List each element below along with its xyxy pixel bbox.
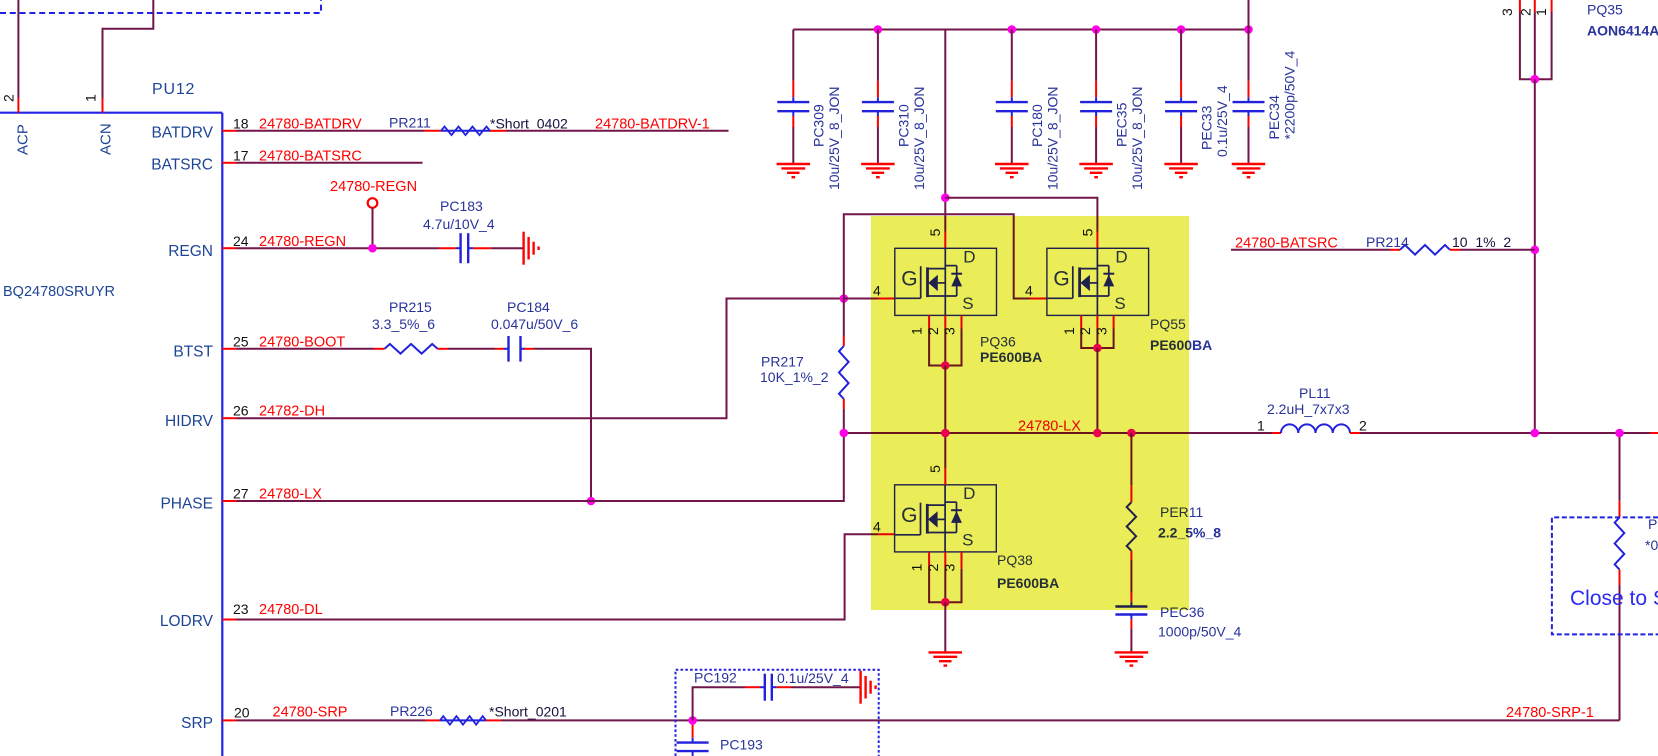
wire PC309 to ground <box>792 116 794 164</box>
IC pin name SRP <box>181 715 213 732</box>
net name 24780-BOOT <box>259 335 345 351</box>
svg-text:PR214: PR214 <box>1366 234 1409 250</box>
value PC310 (rotated) <box>911 86 927 190</box>
svg-text:PC183: PC183 <box>440 198 483 214</box>
svg-text:PU12: PU12 <box>152 81 195 98</box>
source bracket PQ35 <box>1520 12 1552 79</box>
value PEC33 (rotated) <box>1214 85 1230 157</box>
pin 18 stub (BATDRV) <box>222 130 236 132</box>
svg-text:ACN: ACN <box>98 123 115 155</box>
junction dot BOOT/PHASE <box>587 497 596 506</box>
wire PC184 to PHASE line <box>524 349 591 501</box>
label PR214 <box>1366 234 1409 250</box>
wire PEC36 to ground <box>1130 619 1132 652</box>
wire PR215 to PC184 <box>438 348 505 350</box>
net name 24780-BATDRV <box>259 117 362 133</box>
label PC180 (rotated) <box>1029 104 1045 147</box>
value 4.7u/10V_4 <box>423 216 495 232</box>
net name 24780-SRP <box>273 705 348 721</box>
svg-text:PC193: PC193 <box>720 736 763 752</box>
wire PQ55 source to LX <box>1096 348 1098 433</box>
svg-text:PC309: PC309 <box>811 104 827 147</box>
pin number 2 (ACP) <box>1 94 17 102</box>
svg-text:LODRV: LODRV <box>160 613 214 630</box>
pin number 17 <box>233 147 249 163</box>
svg-text:0.1u/25V_4: 0.1u/25V_4 <box>1214 85 1230 157</box>
source bracket PQ38 (pins 1,2,3) <box>929 552 961 602</box>
pin number 4 (PQ36) <box>873 282 881 298</box>
label PEC35 (rotated) <box>1114 102 1130 147</box>
wire PR214 to PQ35 <box>1450 249 1535 251</box>
svg-text:23: 23 <box>233 601 249 617</box>
ground below PEC34 <box>1232 164 1266 177</box>
label PEC34 (rotated) <box>1266 95 1282 140</box>
svg-text:PEC35: PEC35 <box>1114 102 1130 147</box>
value PEC35 (rotated) <box>1129 86 1145 190</box>
wire bus stub up at PEC34 <box>1248 0 1250 30</box>
IC pin name PHASE <box>160 496 213 513</box>
svg-text:PC192: PC192 <box>694 669 737 685</box>
wire LX to PER11 <box>1130 433 1132 502</box>
pin stub PQ36 pin5 <box>944 232 946 249</box>
dashed region border (top-left) <box>0 0 321 13</box>
wire PR217 to LX <box>843 399 845 433</box>
svg-text:26: 26 <box>233 402 249 418</box>
svg-text:10u/25V_8_JON: 10u/25V_8_JON <box>826 86 842 190</box>
junction dot drain feed split <box>941 193 950 202</box>
pin number 5 (PQ55) <box>1079 228 1095 236</box>
svg-text:BATDRV: BATDRV <box>152 125 214 142</box>
pin stub PQ38 pin4 <box>878 533 895 535</box>
wire PHASE to LX line <box>237 433 844 501</box>
net name 24780-BATSRC (right) <box>1235 236 1338 252</box>
svg-text:SRP: SRP <box>181 715 213 732</box>
resistor PR211 (short) <box>424 127 506 136</box>
pin number 4 (PQ55) <box>1025 282 1033 298</box>
label PR217 <box>761 353 804 369</box>
IC pin name ACP (rotated) <box>15 124 32 155</box>
label PQ38 <box>997 552 1033 568</box>
label PC193 <box>720 736 763 752</box>
resistor PR226 (short) <box>425 716 501 725</box>
IC part number BQ24780SRUYR <box>3 284 115 300</box>
ground (right-pointing) at PC183 <box>524 232 539 265</box>
value PE600BA (PQ55) <box>1150 337 1212 353</box>
wire 24780-SRP-1 main run <box>501 719 1620 721</box>
pin stub PQ36 pin4 <box>878 298 895 300</box>
capacitor PC183 <box>456 233 473 263</box>
IC pin name LODRV <box>160 613 214 630</box>
junction dot LX at PQ35 <box>1531 429 1540 438</box>
value 0.1u/25V_4 (PC192) <box>777 670 849 686</box>
pin number 3 (PQ55) <box>1094 327 1110 335</box>
net name 24780-BATSRC <box>259 149 362 165</box>
capacitor PC309 <box>777 97 809 116</box>
value PC180 (rotated) <box>1045 86 1061 190</box>
wire bus drop PC310 <box>877 30 879 81</box>
svg-text:AON6414A: AON6414A <box>1587 22 1658 38</box>
pin number 18 <box>233 115 249 131</box>
IC pin name BATSRC <box>151 157 213 174</box>
label PER12 (clipped) <box>1648 516 1658 532</box>
svg-text:ACP: ACP <box>15 124 32 155</box>
svg-text:PR217: PR217 <box>761 353 804 369</box>
junction dot LX at PQ55 <box>1093 429 1102 438</box>
pin number 4 (PQ38) <box>873 518 881 534</box>
junction dot bus at PEC33 <box>1177 25 1186 34</box>
svg-text:3.3_5%_6: 3.3_5%_6 <box>372 316 435 332</box>
pin 17 stub (BATSRC) <box>222 162 236 164</box>
capacitor PEC33 <box>1165 97 1197 116</box>
value *Short_0201 <box>489 703 567 719</box>
resistor PR214 <box>1400 245 1450 255</box>
svg-text:1000p/50V_4: 1000p/50V_4 <box>1158 624 1242 640</box>
pin 24 stub (REGN) <box>222 247 236 249</box>
svg-text:PL11: PL11 <box>1299 385 1331 401</box>
wire SRP tap down to PC193 <box>692 725 694 738</box>
label PER11 <box>1160 504 1204 520</box>
junction dot bus at PC310 <box>874 25 883 34</box>
dashed region border (SRP filter) <box>676 670 879 756</box>
svg-text:24780-SRP: 24780-SRP <box>273 705 348 721</box>
pin number 1 (PQ55) <box>1061 327 1077 335</box>
inductor PL11 <box>1281 424 1350 433</box>
wire stub PC180 top <box>1011 81 1013 98</box>
value AON6414A <box>1587 22 1658 38</box>
svg-text:24780-REGN: 24780-REGN <box>330 179 417 195</box>
pin number 1 (PQ38) <box>909 564 925 572</box>
net name 24780-LX (label) <box>1018 419 1081 435</box>
IC reference designator PU12 <box>152 81 195 98</box>
label PR211 <box>389 114 431 130</box>
svg-text:10u/25V_8_JON: 10u/25V_8_JON <box>1129 86 1145 190</box>
pin number 1 (PQ36) <box>909 327 925 335</box>
value 0.047u/50V_6 <box>491 316 578 332</box>
wire PL11 out <box>1350 432 1360 434</box>
junction dot bus at PEC34 <box>1244 25 1253 34</box>
svg-text:24: 24 <box>233 233 249 249</box>
label PC192 <box>694 669 737 685</box>
svg-text:1: 1 <box>1257 418 1265 434</box>
ground below PC309 <box>777 164 811 177</box>
value PEC34 (rotated) <box>1281 51 1297 140</box>
svg-text:PR226: PR226 <box>390 703 433 719</box>
wire LX down to PQ38 drain <box>944 433 946 468</box>
pin number 27 <box>233 485 249 501</box>
ground below PEC33 <box>1164 164 1198 177</box>
svg-text:24780-SRP-1: 24780-SRP-1 <box>1506 705 1594 721</box>
pin stub ACN <box>102 98 104 113</box>
wire 24780-BATSRC (right) <box>1231 249 1400 251</box>
pin number 3 (PQ36) <box>942 327 958 335</box>
svg-text:HIDRV: HIDRV <box>165 413 214 430</box>
ground below PQ38 <box>929 652 963 665</box>
pin 27 stub (PHASE) <box>222 500 236 502</box>
pin 26 stub (HIDRV) <box>222 417 236 419</box>
wire PEC35 to ground <box>1095 116 1097 164</box>
pin number 2 (PQ35) <box>1518 8 1534 16</box>
wire bus drop PEC33 <box>1180 30 1182 81</box>
pin number 1 (ACN) <box>83 94 99 102</box>
net label 24780-REGN (port) <box>330 179 417 195</box>
net name 24780-SRP-1 <box>1506 705 1594 721</box>
source bracket PQ55 (pins 1,2,3) <box>1081 315 1113 348</box>
junction dot SRP sense tap <box>688 716 697 725</box>
label PQ55 <box>1150 316 1186 332</box>
svg-text:*Short_0201: *Short_0201 <box>489 703 567 719</box>
svg-text:0.1u/25V_4: 0.1u/25V_4 <box>777 670 849 686</box>
wire 24780-BATDRV <box>237 130 425 132</box>
wire ACN (pin 1) with jog <box>103 0 154 98</box>
wire PER11 to PEC36 <box>1130 551 1132 602</box>
pin number 23 <box>233 601 249 617</box>
wire bus drop PEC34 <box>1248 30 1250 81</box>
svg-text:PEC33: PEC33 <box>1199 105 1215 150</box>
capacitor PEC36 <box>1115 602 1147 620</box>
pin number 2 (PQ36) <box>925 327 941 335</box>
capacitor PC192 <box>760 674 777 701</box>
svg-text:PEC34: PEC34 <box>1266 95 1282 140</box>
svg-text:18: 18 <box>233 115 249 131</box>
label PQ36 <box>980 333 1016 349</box>
svg-text:2: 2 <box>1 94 17 102</box>
junction dot REGN tap <box>368 244 377 253</box>
wire REGN to PC183 <box>237 247 456 249</box>
net name 24780-DL <box>259 602 323 618</box>
junction dot LX right branch <box>1615 429 1624 438</box>
svg-text:PHASE: PHASE <box>160 496 213 513</box>
svg-text:3: 3 <box>1499 8 1515 16</box>
wire LX to PL11 <box>1272 432 1281 434</box>
svg-text:PR211: PR211 <box>389 114 431 130</box>
value PE600BA (PQ38) <box>997 575 1059 591</box>
pin number 1 (PL11) <box>1257 418 1265 434</box>
svg-text:17: 17 <box>233 147 249 163</box>
label PC309 (rotated) <box>811 104 827 147</box>
svg-text:20: 20 <box>234 704 250 720</box>
wire stub PEC34 top <box>1248 81 1250 98</box>
svg-text:BTST: BTST <box>173 344 213 361</box>
svg-text:BATSRC: BATSRC <box>151 157 213 174</box>
wire BTST to PR215 <box>237 348 385 350</box>
value 2.2uH_7x7x3 <box>1267 401 1350 417</box>
resistor PR215 <box>385 344 438 354</box>
ground below PC180 <box>995 164 1029 177</box>
svg-text:24780-BATDRV-1: 24780-BATDRV-1 <box>595 117 710 133</box>
capacitor PC180 <box>996 97 1028 116</box>
svg-text:24780-BATSRC: 24780-BATSRC <box>1235 236 1338 252</box>
svg-text:27: 27 <box>233 485 249 501</box>
wire stub PC309 top <box>792 81 794 98</box>
wire port to REGN line <box>372 208 374 249</box>
resistor PR217 <box>839 346 849 399</box>
resistor PER12 (sense) <box>1615 517 1625 569</box>
transistor PQ36 (PE600BA) <box>895 248 997 316</box>
svg-text:PC180: PC180 <box>1029 104 1045 147</box>
wire gate node to PQ36 gate <box>844 298 878 300</box>
svg-text:PC184: PC184 <box>507 299 550 315</box>
wire stub PEC33 top <box>1180 81 1182 98</box>
svg-text:24780-DL: 24780-DL <box>259 602 323 618</box>
svg-text:*Short_0402: *Short_0402 <box>490 115 568 131</box>
junction dot BATSRC at PQ35 <box>1531 246 1540 255</box>
pin number 2 (PL11) <box>1359 418 1367 434</box>
label PC184 <box>507 299 550 315</box>
svg-text:2: 2 <box>1359 418 1367 434</box>
value PE600BA (PQ36) <box>980 349 1042 365</box>
svg-text:10u/25V_8_JON: 10u/25V_8_JON <box>911 86 927 190</box>
wire PC193 down <box>692 755 694 756</box>
note Close to S <box>1570 587 1658 610</box>
capacitor PEC35 <box>1080 97 1112 116</box>
net name 24780-BATDRV-1 <box>595 117 710 133</box>
wire PEC34 to ground <box>1248 116 1250 164</box>
pin 25 stub (BTST) <box>222 348 236 350</box>
label PC310 (rotated) <box>895 104 911 147</box>
wire HIDRV to gate node <box>237 299 844 419</box>
svg-text:Close to S: Close to S <box>1570 587 1658 610</box>
wire 24780-BATDRV-1 <box>506 130 729 132</box>
label PL11 <box>1299 385 1331 401</box>
junction dot PQ36 source <box>941 361 950 370</box>
junction dot LX at PQ36 <box>941 429 950 438</box>
port circle 24780-REGN <box>368 198 378 208</box>
wire bus drop PEC35 <box>1095 30 1097 81</box>
wire stub PC310 top <box>877 81 879 98</box>
pin number 5 (PQ36) <box>927 228 943 236</box>
value *0 (clipped) <box>1645 537 1658 553</box>
svg-text:PQ35: PQ35 <box>1587 1 1623 17</box>
junction dot gate node <box>840 294 849 303</box>
wire PEC33 to ground <box>1180 116 1182 164</box>
wire top supply bus <box>793 29 1248 31</box>
wire net 24780-LX <box>844 432 1658 434</box>
value 2.2_5%_8 <box>1158 525 1221 541</box>
svg-text:10K_1%_2: 10K_1%_2 <box>760 369 829 385</box>
wire bus drop PC180 <box>1011 30 1013 81</box>
resistor PER11 <box>1127 502 1136 551</box>
net name 24780-LX <box>259 487 322 503</box>
label PR215 <box>389 299 432 315</box>
wire ACP (pin 2) vertical <box>17 0 19 98</box>
capacitor PC310 <box>862 97 894 116</box>
ground below PEC35 <box>1079 164 1113 177</box>
svg-text:0.047u/50V_6: 0.047u/50V_6 <box>491 316 578 332</box>
net name 24782-DH <box>259 404 325 420</box>
pin stubs PQ35 (pins 3,2,1) <box>1520 0 1552 12</box>
junction dot PQ55 source <box>1093 344 1102 353</box>
pin number 26 <box>233 402 249 418</box>
ground (right-pointing) at PC192 <box>861 671 876 704</box>
pin stub ACP <box>17 98 19 113</box>
svg-text:10u/25V_8_JON: 10u/25V_8_JON <box>1045 86 1061 190</box>
wire drain feed jog to PQ55 <box>945 198 1097 232</box>
value 10K_1%_2 <box>760 369 829 385</box>
highlight region (yellow) <box>871 216 1189 610</box>
label PQ35 <box>1587 1 1623 17</box>
wire gate node to PQ55 gate <box>844 214 1030 298</box>
wire PQ38 source to ground <box>944 602 946 652</box>
value 10_1%_2 <box>1452 234 1511 250</box>
svg-text:2.2uH_7x7x3: 2.2uH_7x7x3 <box>1267 401 1350 417</box>
transistor PQ38 (PE600BA) <box>895 484 997 552</box>
source bracket PQ36 (pins 1,2,3) <box>929 315 961 365</box>
wire gate node to PR217 <box>843 299 845 347</box>
junction dot bus at PEC35 <box>1092 25 1101 34</box>
transistor PQ55 (PE600BA) <box>1047 248 1149 316</box>
pin 23 stub (LODRV) <box>222 619 236 621</box>
svg-text:25: 25 <box>233 333 249 349</box>
wire LX down right branch <box>1619 433 1621 517</box>
junction dot PQ35 source <box>1531 75 1540 84</box>
svg-text:REGN: REGN <box>168 243 213 260</box>
svg-text:*2200p/50V_4: *2200p/50V_4 <box>1281 51 1297 140</box>
junction dot LX at PER11 <box>1127 429 1136 438</box>
label PR226 <box>390 703 433 719</box>
wire PQ35 source down to LX <box>1534 79 1536 433</box>
ground below PEC36 <box>1115 652 1149 665</box>
dashed region border (sense resistor) <box>1552 517 1658 634</box>
wire PER12 down to SRP-1 <box>1619 570 1621 721</box>
svg-text:10_1%_2: 10_1%_2 <box>1452 234 1511 250</box>
svg-text:PR215: PR215 <box>389 299 432 315</box>
value *Short_0402 <box>490 115 568 131</box>
pin number 24 <box>233 233 249 249</box>
wire 24780-BATSRC <box>237 162 423 164</box>
pin number 1 (PQ35) <box>1533 8 1549 16</box>
label PEC36 <box>1160 604 1205 620</box>
pin 20 stub (SRP) <box>222 719 236 721</box>
wire PC192 to ground <box>777 686 860 688</box>
wire bus rise PC309 <box>792 30 794 81</box>
pin stub PQ55 pin4 <box>1030 298 1047 300</box>
svg-text:*0_1%_4: *0_1%_4 <box>1645 537 1658 553</box>
pin number 3 (PQ35) <box>1499 8 1515 16</box>
wire SRP tap up to PC192 <box>693 687 760 720</box>
pin number 3 (PQ38) <box>942 564 958 572</box>
pin number 2 (PQ55) <box>1077 327 1093 335</box>
pin number 2 (PQ38) <box>925 564 941 572</box>
wire PC180 to ground <box>1011 116 1013 164</box>
svg-text:1: 1 <box>83 94 99 102</box>
IC pin name REGN <box>168 243 213 260</box>
value PC309 (rotated) <box>826 86 842 190</box>
label PEC33 (rotated) <box>1199 105 1215 150</box>
junction dot LX at PHASE riser <box>840 429 849 438</box>
wire bus drop to PQ36 drain <box>944 30 946 232</box>
wire PC183 to ground <box>473 247 523 249</box>
svg-text:4.7u/10V_4: 4.7u/10V_4 <box>423 216 495 232</box>
wire PC310 to ground <box>877 116 879 164</box>
svg-text:PC310: PC310 <box>895 104 911 147</box>
IC pin name HIDRV <box>165 413 214 430</box>
capacitor PC193 <box>677 738 709 756</box>
capacitor PEC34 <box>1233 97 1265 116</box>
op-amp/IC U? : charger IC PU12 body (BQ24780SRUYR) <box>0 113 222 756</box>
IC pin name BTST <box>173 344 213 361</box>
pin stub PQ38 pin5 <box>944 468 946 485</box>
capacitor PC184 <box>504 336 526 362</box>
wire PQ36 source to LX <box>944 366 946 434</box>
IC pin name BATDRV <box>152 125 214 142</box>
ground below PC310 <box>861 164 895 177</box>
junction dot bus at PC180 <box>1008 25 1017 34</box>
pin number 20 <box>234 704 250 720</box>
value 1000p/50V_4 <box>1158 624 1242 640</box>
pin number 5 (PQ38) <box>927 465 943 473</box>
junction dot PQ38 source <box>941 598 950 607</box>
pin number 25 <box>233 333 249 349</box>
